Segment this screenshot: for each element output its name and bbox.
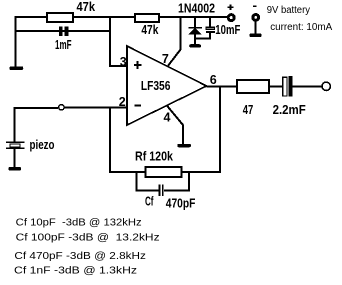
capacitor C1 1mF plates [59, 26, 69, 35]
op-amp U1 LF356 [127, 46, 207, 125]
wire pin2 input [65, 107, 127, 109]
svg-text:47k: 47k [77, 0, 96, 14]
wire piezo stem bottom [13, 149, 15, 167]
wire 10mF stem [209, 17, 211, 27]
resistor R2 47k [135, 14, 159, 22]
label minus terminal [253, 5, 257, 7]
ground minus terminal [249, 34, 261, 38]
svg-text:47: 47 [243, 103, 254, 117]
capacitor 10mF negative plate [206, 31, 215, 33]
svg-text:piezo: piezo [30, 138, 55, 152]
ground top left [9, 66, 23, 70]
svg-text:3: 3 [120, 55, 127, 69]
piezo element [6, 142, 25, 148]
svg-text:470pF: 470pF [166, 196, 196, 210]
svg-text:current: 10mA: current: 10mA [270, 22, 332, 33]
resistor 47 output [237, 80, 269, 93]
wire minus terminal stem [255, 22, 257, 34]
label opamp minus input [135, 104, 141, 106]
ground piezo [8, 167, 21, 171]
svg-text:10mF: 10mF [215, 23, 240, 37]
node input jack circle [59, 105, 64, 110]
node minus battery terminal [251, 13, 260, 22]
svg-text:LF356: LF356 [141, 79, 171, 93]
svg-text:47k: 47k [141, 23, 158, 37]
svg-text:2: 2 [119, 95, 126, 109]
diode D1 1N4002 [188, 27, 202, 35]
wire bypass 1mF [16, 30, 111, 32]
svg-text:Cf 100pF -3dB @ 13.2kHz: Cf 100pF -3dB @ 13.2kHz [16, 233, 160, 244]
svg-text:1N4002: 1N4002 [178, 2, 215, 16]
wire diode stem [194, 17, 196, 27]
capacitor Cf 470pF plates [159, 184, 164, 196]
label opamp plus input [134, 61, 142, 69]
capacitor 10mF positive plate [206, 27, 214, 29]
wire output [207, 86, 238, 88]
wire piezo to circle [14, 108, 58, 141]
wire Cf branch [137, 172, 159, 191]
svg-text:Cf 1nF -3dB @ 1.3kHz: Cf 1nF -3dB @ 1.3kHz [14, 266, 137, 277]
svg-text:9V battery: 9V battery [267, 5, 310, 16]
svg-text:Rf 120k: Rf 120k [135, 150, 173, 164]
wire resistor to cap [269, 86, 283, 88]
wire cap to output jack [292, 86, 322, 88]
svg-text:2.2mF: 2.2mF [273, 103, 307, 117]
svg-text:7: 7 [162, 52, 169, 66]
svg-text:Cf: Cf [145, 195, 154, 209]
wire feedback right [182, 87, 221, 173]
svg-text:1mF: 1mF [55, 38, 72, 52]
wire top rail and left vertical to ground [16, 17, 227, 67]
label plus terminal [228, 5, 234, 11]
capacitor 2.2mF negative plate [288, 76, 292, 97]
wire pin7 supply [168, 17, 181, 66]
svg-text:Cf 470pF -3dB @ 2.8kHz: Cf 470pF -3dB @ 2.8kHz [14, 251, 146, 262]
svg-text:6: 6 [210, 73, 217, 87]
wire vertical rail to pin3 [110, 17, 127, 66]
wire Cf branch right [164, 172, 189, 191]
wire pin4 [167, 106, 183, 144]
ground pin4 [177, 144, 191, 148]
svg-text:Cf 10pF -3dB @ 132kHz: Cf 10pF -3dB @ 132kHz [16, 218, 142, 229]
resistor R1 47k [47, 13, 73, 22]
capacitor 2.2mF positive plate [283, 77, 287, 96]
node output jack circle [322, 82, 330, 90]
wire 10mF bottom [195, 32, 210, 39]
ground diode [189, 44, 201, 47]
wire feedback left [110, 108, 146, 173]
resistor Rf 120k [146, 167, 182, 177]
wire diode to ground [194, 34, 196, 44]
svg-text:4: 4 [164, 111, 171, 125]
node plus battery terminal [227, 13, 236, 22]
